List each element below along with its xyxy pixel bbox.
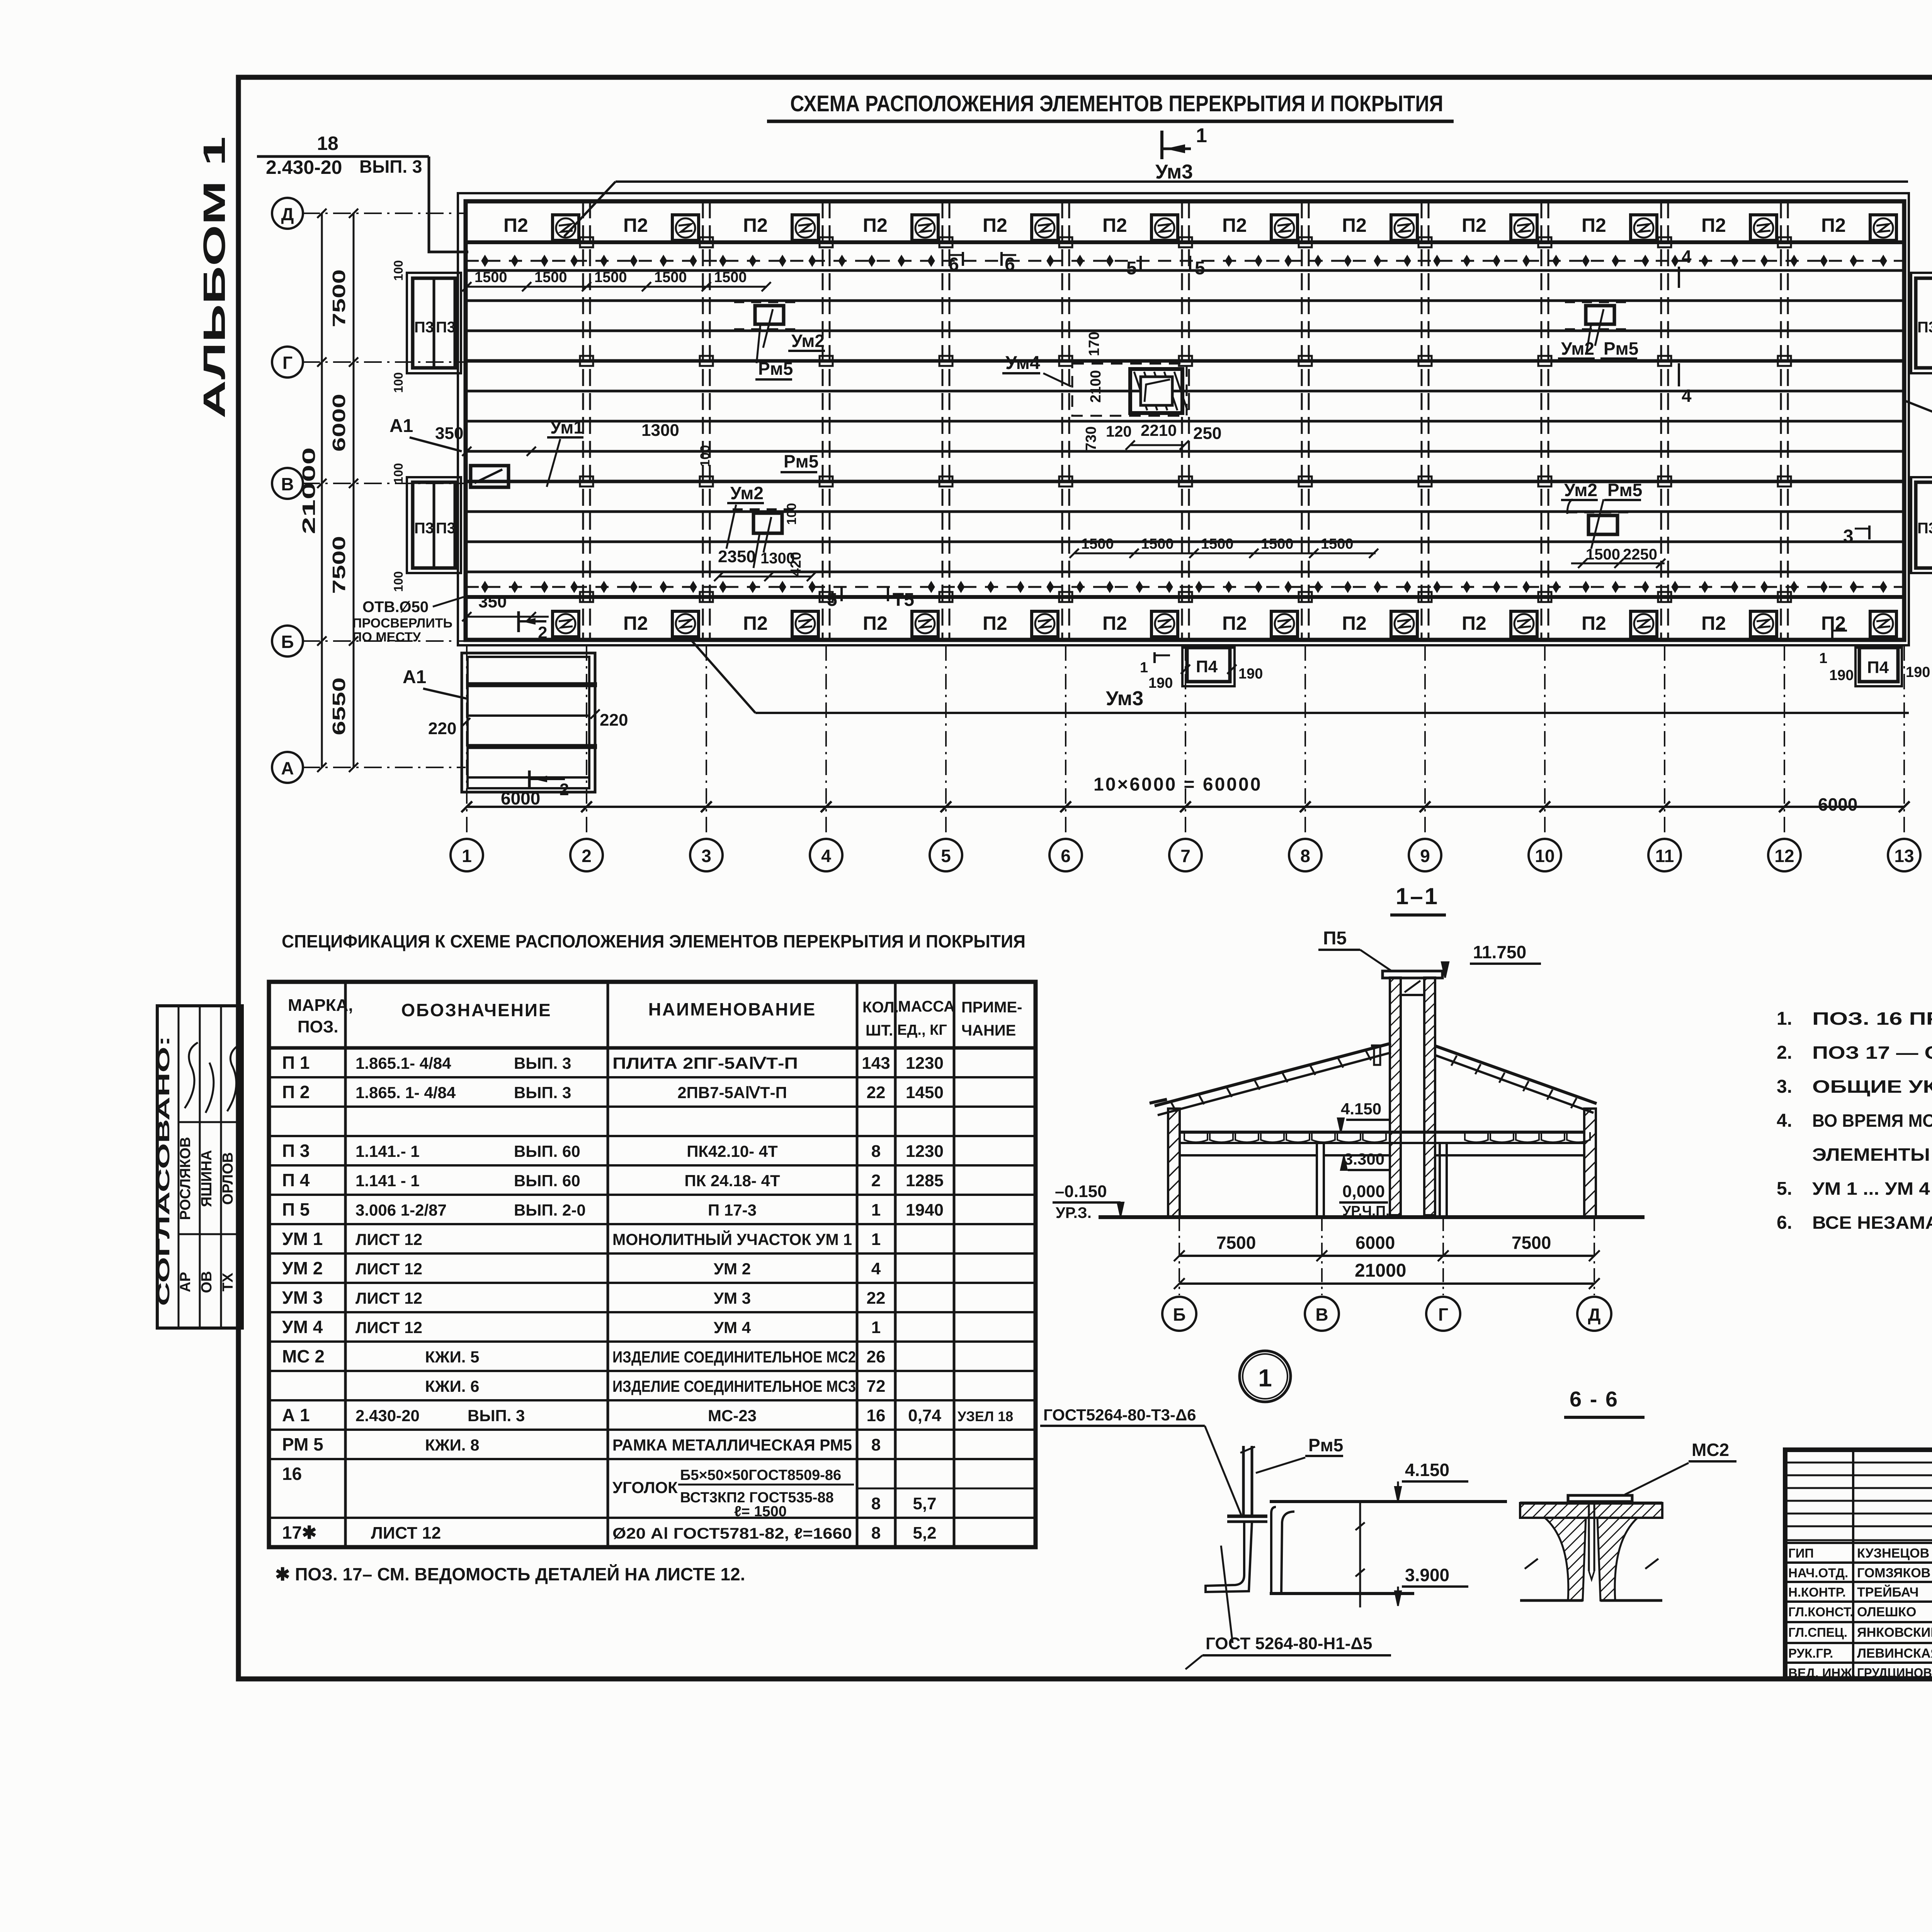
svg-text:П 1: П 1 (282, 1053, 310, 1073)
svg-text:П 2: П 2 (282, 1082, 310, 1102)
beam line below ceiling (1180, 1154, 1317, 1156)
svg-text:8: 8 (871, 1524, 881, 1543)
svg-text:П2: П2 (983, 214, 1007, 236)
svg-text:РУК.ГР.: РУК.ГР. (1788, 1646, 1833, 1660)
svg-text:ЛИСТ 12: ЛИСТ 12 (355, 1230, 422, 1248)
svg-text:ИЗДЕЛИЕ СОЕДИНИТЕЛЬНОЕ МС2: ИЗДЕЛИЕ СОЕДИНИТЕЛЬНОЕ МС2 (612, 1348, 856, 1366)
svg-text:6 - 6: 6 - 6 (1570, 1387, 1619, 1411)
svg-text:ВЫП. 3: ВЫП. 3 (514, 1083, 571, 1102)
svg-text:100: 100 (698, 445, 713, 467)
svg-text:ЕД., КГ: ЕД., КГ (897, 1022, 947, 1038)
svg-text:1.141.- 1: 1.141.- 1 (355, 1142, 420, 1160)
svg-text:ГИП: ГИП (1788, 1546, 1814, 1560)
svg-text:Т5: Т5 (893, 590, 914, 610)
detail 6-6 top plate MC2 (1568, 1495, 1632, 1502)
svg-text:ГОСТ 5264-80-Н1-Δ5: ГОСТ 5264-80-Н1-Δ5 (1206, 1634, 1372, 1653)
svg-text:Ум2: Ум2 (730, 483, 764, 503)
svg-text:ОТВ.Ø50: ОТВ.Ø50 (362, 599, 429, 616)
lower-left annex end plates (462, 653, 595, 792)
svg-text:2ПВ7-5АⅣТ-П: 2ПВ7-5АⅣТ-П (677, 1083, 787, 1102)
svg-text:НАЧ.ОТД.: НАЧ.ОТД. (1788, 1566, 1848, 1580)
svg-text:П3: П3 (436, 520, 456, 537)
svg-text:7: 7 (1180, 846, 1190, 866)
svg-text:2.430-20: 2.430-20 (355, 1406, 420, 1425)
node 1 break line right (1359, 1502, 1361, 1607)
svg-text:2.430-20: 2.430-20 (266, 156, 342, 178)
svg-text:1300: 1300 (641, 421, 679, 440)
svg-text:УМ 1: УМ 1 (282, 1229, 323, 1249)
svg-text:6: 6 (1005, 254, 1015, 275)
svg-text:1: 1 (1258, 1364, 1272, 1392)
svg-text:6: 6 (1061, 846, 1071, 866)
svg-text:П2: П2 (983, 612, 1007, 634)
svg-text:220: 220 (428, 719, 456, 738)
dimension row 1500 top-left (467, 286, 767, 288)
svg-text:ГЛ.СПЕЦ.: ГЛ.СПЕЦ. (1788, 1625, 1847, 1639)
svg-text:1285: 1285 (906, 1171, 944, 1190)
svg-text:ЛИСТ 12: ЛИСТ 12 (371, 1524, 441, 1543)
svg-text:ПЛИТА 2ПГ-5АⅣТ-П: ПЛИТА 2ПГ-5АⅣТ-П (612, 1054, 798, 1072)
svg-text:5: 5 (941, 846, 951, 866)
svg-text:МОНОЛИТНЫЙ УЧАСТОК УМ 1: МОНОЛИТНЫЙ УЧАСТОК УМ 1 (612, 1230, 852, 1248)
group Um2/Rm5 bottom left small slab (753, 513, 782, 533)
ceiling ribbed plates (1184, 1132, 1207, 1142)
svg-text:УМ 1 ... УМ 4 И ВЕДОМОСТЬ Д: УМ 1 ... УМ 4 И ВЕДОМОСТЬ ДЕТАЛЕЙ СМ. ЛИ… (1812, 1179, 1932, 1199)
svg-text:72: 72 (867, 1377, 886, 1396)
svg-text:РАМКА МЕТАЛЛИЧЕСКАЯ РМ5: РАМКА МЕТАЛЛИЧЕСКАЯ РМ5 (612, 1436, 852, 1454)
chimney cap (1383, 971, 1442, 978)
section cut mark 1 top (1160, 131, 1163, 159)
svg-text:ОВ: ОВ (199, 1271, 215, 1293)
svg-text:УР.З.: УР.З. (1056, 1204, 1092, 1221)
svg-text:1450: 1450 (906, 1083, 944, 1102)
svg-text:П3: П3 (1917, 520, 1932, 537)
roof right slope (1434, 1046, 1597, 1104)
row axis dash-dot lines (302, 213, 466, 214)
svg-text:ВЫП. 3: ВЫП. 3 (514, 1054, 571, 1072)
svg-text:4.: 4. (1777, 1111, 1792, 1131)
svg-text:ПОЗ. 16 ПРИВАРИТЬ К РМ 5.: ПОЗ. 16 ПРИВАРИТЬ К РМ 5. (1812, 1009, 1932, 1029)
svg-text:7500: 7500 (1216, 1233, 1256, 1253)
svg-text:7500: 7500 (1512, 1233, 1551, 1253)
svg-text:21000: 21000 (299, 447, 319, 534)
svg-text:НАИМЕНОВАНИЕ: НАИМЕНОВАНИЕ (648, 999, 816, 1019)
svg-text:2: 2 (538, 623, 547, 642)
svg-text:УГОЛОК: УГОЛОК (612, 1478, 678, 1497)
svg-text:АР: АР (177, 1272, 194, 1293)
svg-text:6: 6 (949, 254, 959, 275)
svg-text:ЧАНИЕ: ЧАНИЕ (961, 1022, 1016, 1039)
svg-text:ГОСТ5264-80-Т3-Δ6: ГОСТ5264-80-Т3-Δ6 (1043, 1406, 1196, 1424)
svg-text:П2: П2 (623, 612, 648, 634)
section 1-1 axis extensions (1179, 1217, 1180, 1295)
svg-text:1: 1 (871, 1230, 881, 1249)
svg-text:КУЗНЕЦОВ: КУЗНЕЦОВ (1857, 1546, 1929, 1561)
right wall (1584, 1109, 1596, 1217)
svg-text:1.865.1- 4/84: 1.865.1- 4/84 (355, 1054, 451, 1072)
svg-text:П3: П3 (414, 319, 434, 336)
svg-text:ГОМЗЯКОВ: ГОМЗЯКОВ (1857, 1566, 1930, 1580)
svg-text:РМ 5: РМ 5 (282, 1434, 323, 1454)
svg-text:100: 100 (784, 503, 799, 525)
svg-text:3.006 1-2/87: 3.006 1-2/87 (355, 1201, 447, 1219)
svg-text:ОБЩИЕ УКАЗАНИЯ СМ ЛИСТ 2,: ОБЩИЕ УКАЗАНИЯ СМ ЛИСТ 2, 3. (1812, 1077, 1932, 1097)
svg-text:ЛИСТ 12: ЛИСТ 12 (355, 1289, 422, 1307)
svg-text:22: 22 (867, 1083, 886, 1102)
svg-text:МАССА: МАССА (898, 998, 955, 1015)
svg-text:П 4: П 4 (282, 1170, 310, 1190)
svg-text:1: 1 (871, 1318, 881, 1337)
svg-text:16: 16 (282, 1464, 302, 1484)
svg-text:190: 190 (1829, 667, 1854, 684)
svg-text:Б: Б (1173, 1304, 1185, 1325)
svg-text:1500: 1500 (1141, 536, 1174, 552)
svg-text:ВЫП. 2-0: ВЫП. 2-0 (514, 1201, 586, 1219)
svg-text:ℓ= 1500: ℓ= 1500 (734, 1503, 787, 1520)
svg-text:5,7: 5,7 (913, 1494, 936, 1513)
plan interior plate joint lines (466, 269, 1904, 272)
section 1-1 dim line 21000 (1179, 1282, 1594, 1285)
svg-text:ПРОСВЕРЛИТЬ: ПРОСВЕРЛИТЬ (352, 616, 452, 631)
svg-text:А: А (281, 758, 294, 778)
node 1 angle profile (1206, 1522, 1252, 1592)
svg-text:8: 8 (871, 1494, 881, 1513)
group Um2/Rm5 top right small slab (1586, 306, 1614, 324)
svg-text:2210: 2210 (1141, 421, 1177, 439)
svg-text:П2: П2 (1342, 612, 1367, 634)
svg-text:143: 143 (862, 1054, 890, 1073)
svg-text:П2: П2 (1342, 214, 1367, 236)
svg-text:1230: 1230 (906, 1142, 944, 1161)
svg-text:1500: 1500 (1261, 536, 1294, 552)
small vent pipe on roof (1374, 1046, 1380, 1065)
svg-text:ГРУДЦИНОВА: ГРУДЦИНОВА (1857, 1666, 1932, 1680)
section cut mark 1 at P4 right (1831, 628, 1833, 638)
left dimension vertical lines (321, 213, 323, 767)
svg-text:П3: П3 (414, 520, 434, 537)
node circle 1 (1240, 1351, 1291, 1402)
svg-text:11: 11 (1655, 846, 1674, 866)
svg-text:3.900: 3.900 (1405, 1565, 1449, 1585)
svg-text:УМ 4: УМ 4 (282, 1317, 323, 1337)
svg-text:УМ 2: УМ 2 (714, 1260, 751, 1278)
leader line Um3 top (616, 180, 1908, 183)
svg-text:1500: 1500 (1321, 536, 1354, 552)
section cut mark 2 below annex (528, 770, 531, 788)
svg-text:Д: Д (281, 204, 294, 224)
svg-text:Рм5: Рм5 (1308, 1435, 1343, 1455)
detail 6-6 break marks (1525, 1559, 1658, 1569)
svg-text:П4: П4 (1196, 657, 1218, 676)
svg-text:В: В (281, 474, 294, 494)
reference line 18 (257, 155, 429, 158)
node 1 plate with rounded corner (1270, 1500, 1507, 1503)
roof purlin ticks (1171, 1102, 1176, 1112)
svg-text:АЛЬБОМ 1: АЛЬБОМ 1 (197, 136, 231, 418)
svg-text:Б: Б (281, 632, 294, 652)
svg-text:Б5×50×50ГОСТ8509-86: Б5×50×50ГОСТ8509-86 (680, 1467, 841, 1483)
svg-text:МАРКА,: МАРКА, (288, 996, 353, 1015)
P3 block upper right (1911, 273, 1932, 373)
svg-text:13: 13 (1894, 846, 1914, 866)
svg-text:Ø20 АⅠ ГОСТ5781-82, ℓ=1660: Ø20 АⅠ ГОСТ5781-82, ℓ=1660 (612, 1525, 852, 1542)
svg-text:П3: П3 (436, 319, 456, 336)
svg-text:100: 100 (391, 463, 405, 483)
svg-text:4: 4 (1682, 247, 1692, 267)
svg-text:Н.КОНТР.: Н.КОНТР. (1788, 1585, 1846, 1599)
section cut mark 4 top right (1678, 267, 1680, 288)
svg-text:6550: 6550 (329, 677, 349, 735)
svg-text:6.: 6. (1777, 1213, 1792, 1233)
svg-text:4: 4 (871, 1259, 881, 1278)
svg-text:1: 1 (871, 1201, 881, 1219)
svg-text:10: 10 (1535, 846, 1554, 866)
svg-text:8: 8 (1300, 846, 1310, 866)
main title underline (767, 120, 1454, 123)
svg-text:П2: П2 (1821, 214, 1846, 236)
svg-text:0,000: 0,000 (1342, 1182, 1385, 1201)
svg-text:УМ 4: УМ 4 (714, 1318, 751, 1337)
svg-text:МС 2: МС 2 (282, 1346, 325, 1366)
svg-text:Ум2: Ум2 (791, 331, 825, 351)
svg-text:420: 420 (788, 552, 804, 576)
diamond marks MC3 top line (482, 256, 488, 266)
svg-text:МС-23: МС-23 (708, 1406, 757, 1425)
section cut mark 2 in bottom band (517, 611, 520, 632)
svg-text:ЛИСТ 12: ЛИСТ 12 (355, 1260, 422, 1278)
svg-text:1500: 1500 (1586, 546, 1620, 563)
svg-text:П2: П2 (863, 612, 888, 634)
svg-text:ИЗДЕЛИЕ СОЕДИНИТЕЛЬНОЕ МС3: ИЗДЕЛИЕ СОЕДИНИТЕЛЬНОЕ МС3 (612, 1377, 856, 1395)
svg-text:3.: 3. (1777, 1077, 1792, 1097)
svg-text:П 5: П 5 (282, 1199, 310, 1219)
roof left slope (1155, 1043, 1391, 1106)
P4 block bottom middle (1182, 648, 1235, 686)
svg-text:3.300: 3.300 (1344, 1150, 1384, 1168)
svg-text:КОЛ.: КОЛ. (862, 999, 899, 1016)
svg-text:2: 2 (560, 780, 569, 799)
svg-text:✱ ПОЗ. 17– СМ. ВЕДОМОСТЬ ДЕТ: ✱ ПОЗ. 17– СМ. ВЕДОМОСТЬ ДЕТАЛЕЙ НА ЛИСТ… (275, 1564, 745, 1584)
svg-text:1.865. 1- 4/84: 1.865. 1- 4/84 (355, 1083, 456, 1102)
svg-text:5.: 5. (1777, 1179, 1792, 1199)
svg-text:ВЫП. 60: ВЫП. 60 (514, 1142, 580, 1160)
column axis extension lines (466, 645, 468, 839)
P3 block upper left (407, 273, 461, 373)
svg-text:7500: 7500 (329, 536, 349, 594)
svg-text:Рм5: Рм5 (758, 359, 793, 379)
svg-text:П2: П2 (1102, 214, 1127, 236)
svg-text:ПРИМЕ-: ПРИМЕ- (961, 999, 1022, 1016)
svg-text:100: 100 (391, 571, 405, 592)
svg-text:П2: П2 (1582, 214, 1606, 236)
svg-text:П2: П2 (1462, 612, 1486, 634)
svg-text:12: 12 (1774, 846, 1794, 866)
svg-text:П2: П2 (743, 214, 768, 236)
svg-text:6000: 6000 (1818, 794, 1857, 815)
svg-text:10×6000 = 60000: 10×6000 = 60000 (1094, 774, 1262, 795)
svg-text:УМ 3: УМ 3 (282, 1287, 323, 1308)
P3 block lower right (1911, 477, 1932, 573)
svg-text:Рм5: Рм5 (1607, 480, 1642, 500)
svg-text:УЗЕЛ 18: УЗЕЛ 18 (957, 1408, 1013, 1424)
svg-text:2350: 2350 (718, 547, 756, 566)
drawing border frame (238, 77, 1932, 1679)
section 1-1 dim line 7500 6000 7500 (1179, 1255, 1594, 1257)
svg-text:ВСЕ НЕЗАМАРКИРОВАННЫЕ ПЛИТ: ВСЕ НЕЗАМАРКИРОВАННЫЕ ПЛИТЫ — П1. (1812, 1213, 1932, 1233)
svg-text:ПК42.10- 4Т: ПК42.10- 4Т (687, 1142, 778, 1160)
svg-text:П2: П2 (1222, 612, 1247, 634)
svg-text:16: 16 (867, 1406, 886, 1425)
detail 6-6 bottom edge lines (1520, 1599, 1583, 1602)
svg-text:190: 190 (1238, 666, 1263, 682)
svg-text:П2: П2 (743, 612, 768, 634)
svg-text:ЯНКОВСКИЙ: ЯНКОВСКИЙ (1857, 1625, 1932, 1640)
svg-text:120: 120 (1106, 423, 1132, 440)
detail 6-6 slab band hatched (1520, 1503, 1662, 1518)
plan main outline (466, 201, 1904, 640)
svg-text:П2: П2 (1701, 612, 1726, 634)
svg-text:11.750: 11.750 (1473, 942, 1526, 962)
svg-text:ГЛ.КОНСТ.: ГЛ.КОНСТ. (1788, 1605, 1853, 1619)
svg-text:17✱: 17✱ (282, 1522, 317, 1543)
svg-text:1500: 1500 (474, 269, 507, 286)
svg-text:ВЫП. 60: ВЫП. 60 (514, 1172, 580, 1190)
svg-text:2: 2 (871, 1171, 881, 1190)
svg-text:1500: 1500 (1201, 536, 1234, 552)
svg-text:100: 100 (391, 260, 405, 281)
dimension row 1500 mid bottom (1074, 553, 1376, 554)
svg-text:ОБОЗНАЧЕНИЕ: ОБОЗНАЧЕНИЕ (401, 1000, 551, 1020)
svg-text:П 3: П 3 (282, 1141, 310, 1161)
svg-text:А1: А1 (389, 416, 413, 436)
svg-text:1500: 1500 (594, 269, 627, 286)
svg-text:П2: П2 (623, 214, 648, 236)
svg-text:ЛЕВИНСКАЯ: ЛЕВИНСКАЯ (1857, 1646, 1932, 1661)
svg-text:5: 5 (1126, 258, 1137, 279)
svg-text:1: 1 (1819, 650, 1827, 667)
svg-text:УМ 3: УМ 3 (714, 1289, 751, 1307)
svg-text:1500: 1500 (714, 269, 747, 286)
svg-text:ВЫП. 3: ВЫП. 3 (359, 156, 422, 177)
svg-text:ТХ: ТХ (220, 1272, 236, 1291)
svg-text:В: В (1315, 1304, 1328, 1325)
svg-text:190: 190 (1906, 664, 1930, 680)
svg-text:А 1: А 1 (282, 1405, 310, 1425)
bottom dimension line with ticks (467, 806, 1904, 808)
svg-text:Д: Д (1588, 1304, 1601, 1325)
svg-text:730: 730 (1083, 426, 1099, 451)
svg-text:1: 1 (1140, 660, 1148, 676)
svg-text:Ум2: Ум2 (1564, 480, 1597, 500)
chimney shaft (1390, 978, 1401, 1215)
svg-text:ВЕД. ИНЖ.: ВЕД. ИНЖ. (1788, 1666, 1855, 1680)
svg-text:П3: П3 (1917, 319, 1932, 336)
svg-text:П2: П2 (503, 214, 528, 236)
svg-text:ОРЛОВ: ОРЛОВ (220, 1152, 236, 1205)
svg-text:МС2: МС2 (1692, 1440, 1729, 1460)
plan interior column grid double dashed lines (582, 201, 584, 640)
plan outer roof outline (458, 193, 1909, 645)
svg-text:ПК 24.18- 4Т: ПК 24.18- 4Т (684, 1172, 780, 1190)
left eave + wall (1150, 1099, 1167, 1103)
plan top band bottom line (466, 240, 1904, 244)
svg-text:9: 9 (1420, 846, 1430, 866)
detail 6-6 left rib hatched (1545, 1518, 1586, 1600)
svg-text:П2: П2 (1582, 612, 1606, 634)
svg-text:6000: 6000 (501, 788, 540, 808)
svg-text:П4: П4 (1867, 658, 1889, 677)
svg-text:П2: П2 (1701, 214, 1726, 236)
svg-text:П2: П2 (1222, 214, 1247, 236)
svg-text:Рм5: Рм5 (784, 451, 818, 471)
svg-text:КЖИ. 5: КЖИ. 5 (425, 1348, 479, 1366)
svg-text:4: 4 (821, 846, 831, 866)
svg-text:ШТ.: ШТ. (866, 1022, 893, 1039)
label Um3 bottom with long leader (755, 712, 1909, 714)
plan axis D connector dash line with MC2 marks (466, 260, 1904, 262)
svg-text:СПЕЦИФИКАЦИЯ К СХЕМЕ РАСПОЛ: СПЕЦИФИКАЦИЯ К СХЕМЕ РАСПОЛОЖЕНИЯ ЭЛЕМЕН… (282, 931, 1026, 951)
plan axis B connector dash line with MC3 marks (466, 586, 1904, 588)
svg-text:2.: 2. (1777, 1043, 1792, 1063)
svg-text:ВО ВРЕМЯ МОНТАЖА ПЛИТ ПОКРЫ: ВО ВРЕМЯ МОНТАЖА ПЛИТ ПОКРЫТИЯ В ШВЫ ЗАК… (1812, 1111, 1932, 1131)
svg-text:100: 100 (391, 372, 405, 393)
svg-text:Ум3: Ум3 (1155, 161, 1193, 183)
svg-text:8: 8 (871, 1435, 881, 1454)
floor ground line (1099, 1215, 1645, 1219)
svg-text:1940: 1940 (906, 1201, 944, 1219)
svg-text:0,74: 0,74 (908, 1406, 941, 1425)
svg-text:170: 170 (1086, 332, 1102, 356)
group Um2/Rm5 bottom right small slab (1588, 515, 1617, 534)
svg-text:4.150: 4.150 (1341, 1100, 1381, 1118)
svg-text:ЭЛЕМЕНТЫ КРЕПЛЕНИЯ ТОРЦЕВЫ: ЭЛЕМЕНТЫ КРЕПЛЕНИЯ ТОРЦЕВЫХ ПЛИТ ( А 1 ) (1812, 1145, 1932, 1165)
svg-text:1: 1 (1196, 124, 1207, 147)
node 1 flange plate (1227, 1515, 1267, 1518)
svg-text:Г: Г (282, 353, 293, 373)
svg-text:5,2: 5,2 (913, 1524, 936, 1543)
svg-text:7500: 7500 (329, 269, 349, 327)
section cut mark 1 at P4 middle (1153, 652, 1156, 663)
svg-text:ПОЗ.: ПОЗ. (298, 1017, 338, 1036)
svg-text:250: 250 (1193, 424, 1221, 443)
svg-text:УМ 2: УМ 2 (282, 1258, 323, 1278)
svg-text:1500: 1500 (534, 269, 567, 286)
P3 block lower left (407, 477, 461, 573)
svg-text:1.: 1. (1777, 1009, 1792, 1029)
svg-text:СОГЛАСОВАНО:: СОГЛАСОВАНО: (154, 1036, 173, 1306)
interior columns (1317, 1143, 1324, 1217)
svg-text:Ум2: Ум2 (1561, 338, 1594, 359)
P4 block bottom right (1855, 648, 1902, 686)
node 1 vertical post RM5 (1242, 1446, 1245, 1516)
svg-text:2250: 2250 (1623, 546, 1657, 563)
svg-text:3: 3 (1843, 526, 1854, 547)
section 1-1 axis bubbles B V G D (1162, 1297, 1196, 1331)
svg-text:5: 5 (1195, 258, 1205, 279)
svg-text:350: 350 (478, 592, 507, 611)
svg-text:18: 18 (317, 133, 338, 154)
detail 6-6 center anchor (1588, 1502, 1590, 1571)
svg-text:ТРЕЙБАЧ: ТРЕЙБАЧ (1857, 1585, 1919, 1600)
svg-text:УР.Ч.П.: УР.Ч.П. (1342, 1203, 1389, 1219)
soglasovano rotated table frame (157, 1006, 242, 1328)
svg-text:КЖИ. 8: КЖИ. 8 (425, 1436, 479, 1454)
svg-text:5: 5 (827, 590, 837, 610)
svg-text:Ум1: Ум1 (550, 417, 583, 437)
svg-text:Ум3: Ум3 (1106, 687, 1143, 710)
svg-text:П 17-3: П 17-3 (708, 1201, 757, 1219)
svg-text:350: 350 (435, 424, 463, 443)
